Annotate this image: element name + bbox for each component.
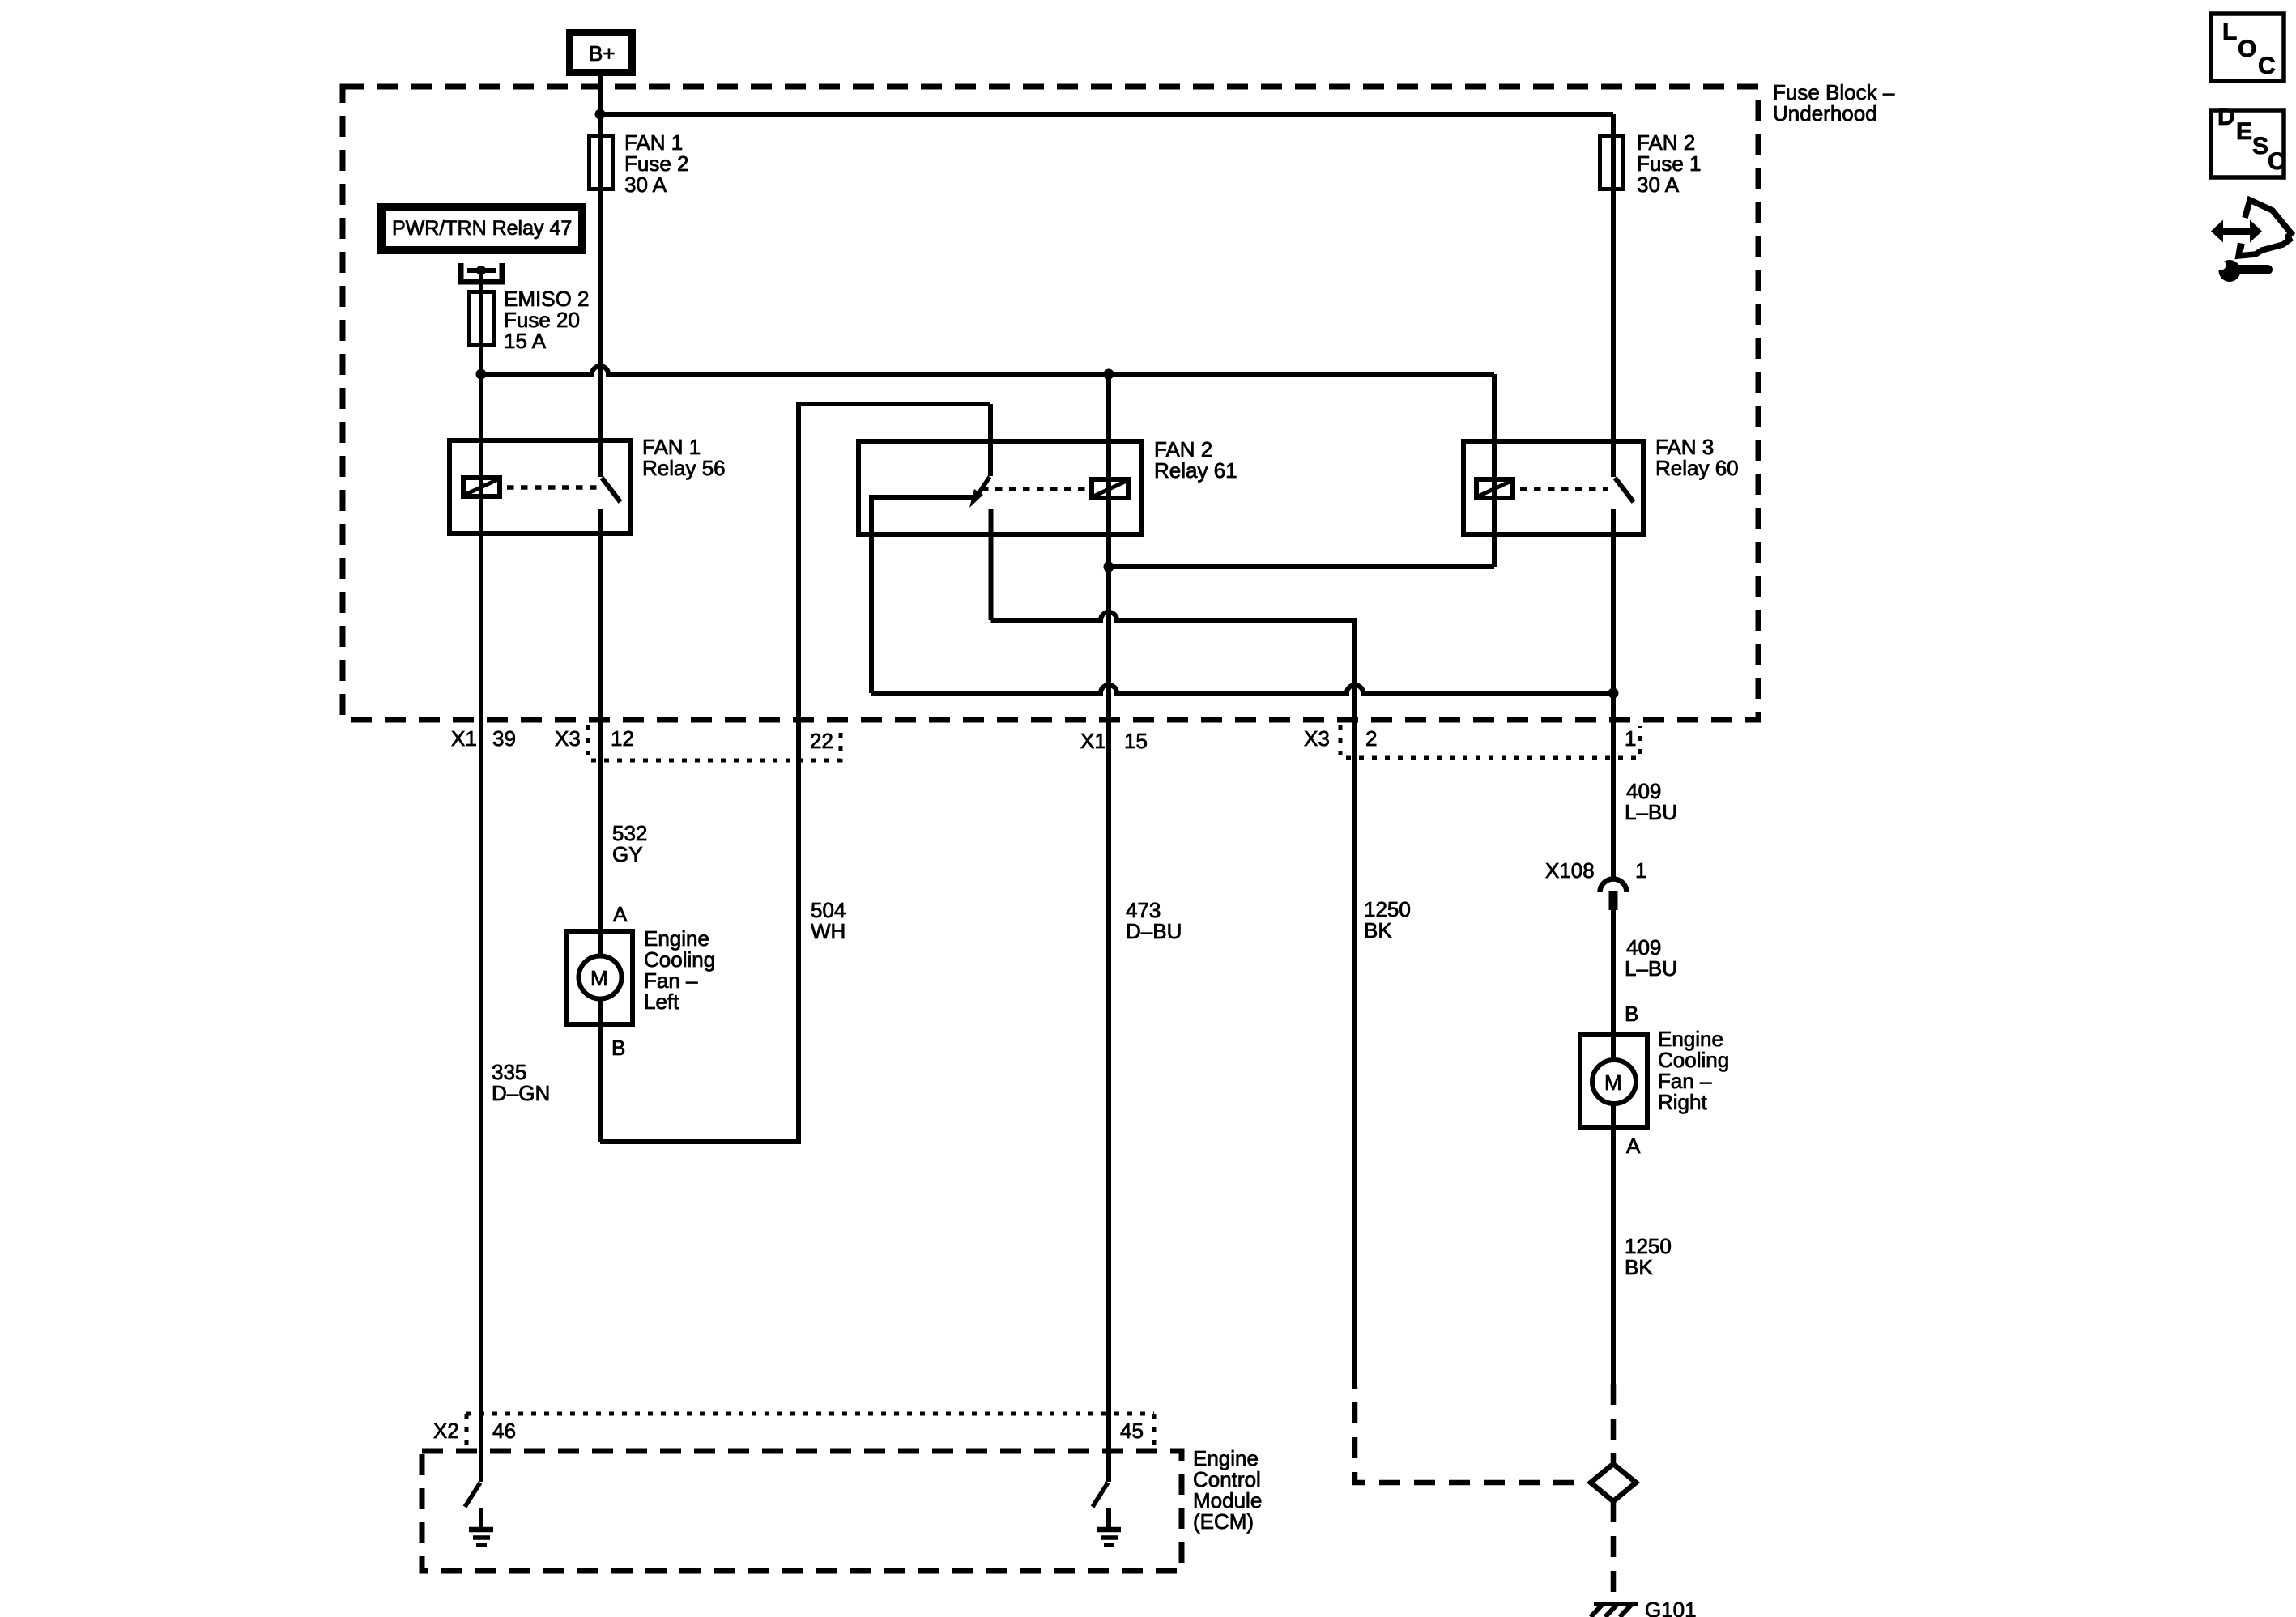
relay K47 PWR/TRN Relay 47 box [381, 207, 582, 250]
pin label X1 39 [451, 726, 516, 751]
svg-text:S: S [2252, 133, 2268, 160]
svg-text:39: 39 [492, 726, 516, 751]
wire relay 56 coil through X1-39 [479, 374, 483, 720]
svg-text:X3: X3 [1304, 726, 1330, 751]
label 504 WH [811, 898, 846, 943]
svg-text:L: L [2222, 19, 2237, 45]
svg-text:15: 15 [1124, 729, 1148, 753]
ground ECM pin 46 [469, 1508, 493, 1545]
wire coil supply bus with bump over FAN1 wire [481, 366, 1494, 374]
label FAN 2 Relay 61 [1154, 437, 1237, 483]
wire left fan B down [598, 1024, 603, 1142]
wire relay 61 coil through X1-15 [1106, 374, 1111, 720]
connector X3 dotted outline fuse block left [588, 725, 841, 760]
fuse F1 FAN 2 Fuse 1 30 A [1600, 137, 1624, 189]
svg-text:O: O [2238, 36, 2256, 62]
wire relay 61 output to X3-2 with bump [991, 612, 1356, 720]
svg-text:Relay 60: Relay 60 [1655, 456, 1739, 480]
svg-text:Relay 61: Relay 61 [1154, 458, 1237, 483]
relay K61 FAN 2 Relay 61 box [858, 441, 1142, 534]
label 409 L-BU upper [1625, 779, 1677, 824]
wire B+ bus to FAN 2 fuse [600, 112, 1613, 117]
icon LOC box [2211, 14, 2284, 81]
node junction relay 60 output [1608, 688, 1619, 699]
svg-text:15 A: 15 A [504, 329, 547, 353]
label Engine Cooling Fan - Left [644, 926, 715, 1014]
wire 335 D-GN X1-39 to ECM 46 [479, 720, 483, 1482]
svg-text:X1: X1 [451, 726, 477, 751]
svg-text:D–GN: D–GN [492, 1081, 550, 1105]
relay K56 FAN 1 Relay 56 box [449, 440, 630, 534]
svg-text:X3: X3 [555, 726, 581, 751]
fuse block underhood dashed box [343, 87, 1758, 720]
wire 1250 BK solid from X3-2 [1352, 720, 1357, 1387]
svg-text:C: C [2258, 53, 2276, 79]
svg-text:30 A: 30 A [1637, 172, 1680, 197]
svg-text:E: E [2236, 118, 2252, 145]
svg-text:M: M [1604, 1070, 1622, 1095]
svg-text:L–BU: L–BU [1625, 956, 1677, 981]
svg-text:BK: BK [1625, 1255, 1653, 1279]
svg-text:X1: X1 [1080, 729, 1106, 753]
wire dashed splice to G101 [1611, 1501, 1617, 1602]
wire right fan A down 1250 BK [1611, 1127, 1616, 1384]
wire relay 60 coil drop [1492, 374, 1497, 567]
svg-text:Underhood: Underhood [1773, 101, 1877, 126]
connector X3 dotted outline fuse block right [1340, 725, 1640, 758]
ECM pin 45 internal switch blade [1093, 1483, 1108, 1507]
relay K60 FAN 3 Relay 60 box [1463, 441, 1643, 534]
node junction coil low side [1104, 562, 1114, 572]
label 473 D-BU [1126, 898, 1182, 943]
wire FAN 1 fuse to relay 56 switch [598, 134, 603, 477]
node junction EMISO output [476, 369, 487, 380]
svg-text:B: B [1625, 1002, 1638, 1026]
relay 61 switch blade with arrowhead [969, 477, 990, 508]
ECM pin 46 internal switch blade [465, 1483, 480, 1507]
pin label X3 12 [555, 726, 634, 751]
svg-text:1: 1 [1625, 726, 1636, 751]
svg-text:Relay 56: Relay 56 [642, 456, 726, 480]
pin label X3 2 [1304, 726, 1377, 751]
wire FAN 2 fuse to relay 60 switch [1611, 114, 1616, 477]
label FAN 1 Relay 56 [642, 435, 726, 480]
svg-text:X108: X108 [1545, 858, 1595, 883]
terminal label B left fan [611, 1036, 625, 1060]
pin label 22 [810, 729, 833, 753]
svg-text:B+: B+ [589, 41, 616, 66]
terminal label A right fan [1626, 1134, 1641, 1158]
wire coil low side bus to relay 60 coil [1109, 564, 1494, 569]
fuse F20 EMISO 2 Fuse 20 15 A [470, 292, 494, 345]
label X108 1 [1545, 858, 1646, 883]
svg-text:C: C [2268, 148, 2285, 175]
relay 61 coil to switch dashed link [982, 487, 1089, 491]
label 1250 BK X3-2 [1364, 897, 1411, 943]
svg-text:WH: WH [811, 919, 846, 943]
svg-text:45: 45 [1120, 1419, 1144, 1443]
svg-text:12: 12 [611, 726, 634, 751]
svg-text:2: 2 [1365, 726, 1377, 751]
svg-text:PWR/TRN Relay 47: PWR/TRN Relay 47 [392, 217, 572, 240]
svg-text:1: 1 [1635, 858, 1646, 883]
icon jump arrow with wrench [2211, 200, 2291, 282]
relay 47 output terminal bracket [461, 263, 502, 282]
relay 60 switch blade [1615, 478, 1634, 502]
relay 61 fixed contact to pin 22 circuit [871, 497, 973, 693]
node junction coil bus at relay 61 [1104, 369, 1114, 380]
svg-text:X2: X2 [433, 1419, 459, 1443]
svg-text:22: 22 [810, 729, 833, 753]
label FAN 3 Relay 60 [1655, 435, 1739, 480]
relay 61 coil [1092, 479, 1128, 498]
node dot on relay 47 output [476, 266, 486, 275]
ECM dashed box [422, 1451, 1182, 1571]
label FAN 1 Fuse 2 30 A [624, 130, 689, 197]
ground ECM pin 45 [1097, 1508, 1121, 1545]
relay 56 switch output stub [598, 509, 603, 720]
svg-text:(ECM): (ECM) [1193, 1509, 1254, 1534]
svg-text:L–BU: L–BU [1625, 800, 1677, 824]
pin label 1 [1625, 726, 1636, 751]
connector X108 inline symbol [1600, 879, 1627, 911]
relay 60 coil to switch dashed link [1520, 487, 1608, 491]
pin label X2 46 [433, 1419, 516, 1443]
ground G101 chassis symbol [1591, 1598, 1697, 1617]
wire left fan return to relay 61 common (pin 22 path) [600, 404, 990, 1142]
label Engine Cooling Fan - Right [1658, 1027, 1729, 1114]
label 409 L-BU lower [1625, 935, 1677, 981]
svg-text:BK: BK [1364, 918, 1392, 943]
wire relay 61 common entering switch [988, 404, 993, 476]
relay 61 switch output stub [989, 509, 994, 620]
wire dashed right fan to splice [1611, 1384, 1617, 1462]
wire 532 GY relay 56 to left fan A [598, 720, 603, 929]
svg-text:Right: Right [1658, 1090, 1707, 1114]
svg-text:30 A: 30 A [624, 172, 667, 197]
connector X2 dotted outline at ECM [466, 1414, 1154, 1449]
relay 56 switch blade [602, 478, 620, 502]
relay 60 coil [1476, 479, 1513, 498]
label FAN 2 Fuse 1 30 A [1637, 130, 1702, 197]
battery B+ symbol [570, 33, 633, 73]
label 335 D-GN [492, 1060, 550, 1105]
label 532 GY [612, 821, 647, 866]
svg-text:G101: G101 [1645, 1598, 1697, 1617]
pin label 45 [1120, 1419, 1144, 1443]
relay 56 coil [463, 478, 500, 496]
label Fuse Block - Underhood [1773, 80, 1895, 126]
svg-text:A: A [613, 902, 628, 926]
icon DESC box [2211, 104, 2285, 177]
wire 1250 BK dashed to splice [1355, 1387, 1588, 1483]
terminal label B right fan [1625, 1002, 1638, 1026]
wire 409 L-BU relay 60 to X108 [1611, 720, 1616, 879]
motor M2 Engine Cooling Fan Right [1580, 1035, 1647, 1127]
label 1250 BK right [1625, 1234, 1672, 1279]
relay 56 coil to switch dashed link [507, 485, 597, 490]
svg-text:B: B [611, 1036, 625, 1060]
wire EMISO fuse feed [479, 270, 483, 374]
svg-text:M: M [590, 966, 608, 990]
label Engine Control Module (ECM) [1193, 1446, 1262, 1534]
svg-text:Left: Left [644, 989, 679, 1014]
svg-text:A: A [1626, 1134, 1641, 1158]
svg-text:D–BU: D–BU [1126, 919, 1182, 943]
label EMISO 2 Fuse 20 15 A [504, 287, 589, 353]
svg-text:46: 46 [492, 1419, 516, 1443]
pin label X1 15 [1080, 729, 1148, 753]
wire relay 61 contact bus to relay 60 output with bumps [871, 685, 1613, 693]
node junction at B+ feed split [595, 109, 606, 120]
relay 60 switch output stub to pin 1 [1611, 509, 1616, 720]
motor M1 Engine Cooling Fan Left [567, 931, 633, 1024]
terminal label A left fan [613, 902, 628, 926]
splice diamond S101 [1591, 1464, 1636, 1501]
fuse F2 FAN 1 Fuse 2 30 A [590, 137, 613, 189]
svg-text:D: D [2217, 104, 2235, 130]
wire X108 to right fan B [1611, 910, 1616, 1032]
wire B+ feed down into fuse block [598, 76, 603, 134]
svg-text:GY: GY [612, 842, 643, 866]
wire 473 D-BU X1-15 to ECM 45 [1106, 720, 1111, 1482]
